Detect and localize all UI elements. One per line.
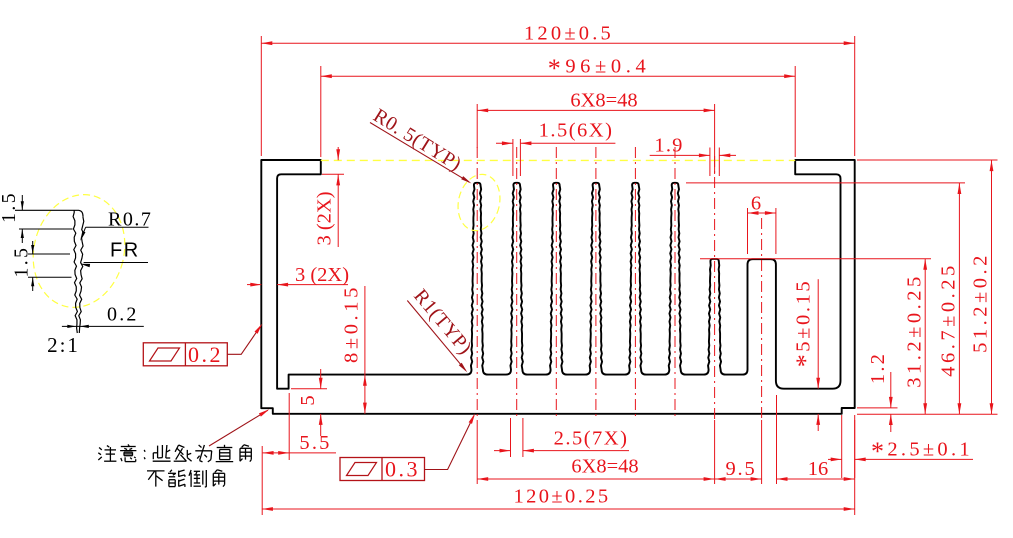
- note leader: [209, 409, 269, 446]
- heatsink profile outline: [261, 160, 854, 414]
- yellow detail circle on 2:1 view: [22, 185, 137, 317]
- svg-text:2.5(7X): 2.5(7X): [554, 428, 629, 450]
- svg-text:6: 6: [751, 193, 761, 215]
- svg-text:120±0.5: 120±0.5: [524, 22, 614, 44]
- dimension *5±0.15: [791, 279, 820, 431]
- label 2:1: [47, 333, 80, 357]
- svg-text:R0. 5(TYP): R0. 5(TYP): [369, 105, 465, 176]
- dimension 31.2±0.25: [700, 259, 931, 415]
- dimension 9.5: [715, 420, 762, 484]
- dimension 120±0.25 bottom: [262, 446, 855, 515]
- svg-text:1.5: 1.5: [12, 246, 33, 278]
- svg-text:5.5: 5.5: [299, 432, 331, 454]
- svg-text:120±0.25: 120±0.25: [513, 485, 610, 507]
- svg-text:R1(TYP): R1(TYP): [409, 285, 476, 359]
- svg-text:8±0.15: 8±0.15: [340, 284, 362, 363]
- detail dimension 0.2: [62, 304, 144, 329]
- detail view fin tip profile: [15, 210, 84, 333]
- dimension 2.5(7X): [494, 418, 629, 457]
- dimension 1.9: [650, 134, 736, 176]
- svg-text:1.5(6X): 1.5(6X): [539, 120, 614, 142]
- flatness frame 0.3: [340, 457, 425, 482]
- svg-text:3 (2X): 3 (2X): [314, 191, 336, 245]
- fin 1 centerline: [476, 147, 478, 420]
- svg-text:5: 5: [297, 395, 319, 405]
- label R0.7: [80, 209, 152, 241]
- svg-text:6X8=48: 6X8=48: [570, 90, 637, 112]
- fin 5 centerline: [634, 147, 636, 420]
- post centerline: [761, 218, 763, 420]
- dimension 5.5: [263, 393, 336, 460]
- svg-text:2:1: 2:1: [47, 333, 80, 357]
- fin 4 centerline: [595, 147, 597, 420]
- dimension 1.5(6X): [496, 120, 615, 177]
- flatness frame 0.2: [143, 342, 227, 367]
- svg-text:6X8=48: 6X8=48: [571, 455, 638, 477]
- yellow detail circle on fin 1 tip: [453, 170, 506, 235]
- svg-text:0.2: 0.2: [188, 342, 223, 367]
- detail dimension 1.5 upper: [0, 191, 24, 243]
- dimension *2.5±0.1: [828, 415, 973, 478]
- svg-text:16: 16: [808, 458, 829, 480]
- fin 2 centerline: [516, 147, 518, 420]
- dimension 6 post width: [748, 193, 776, 255]
- svg-text:46.7±0.25: 46.7±0.25: [938, 262, 960, 377]
- dimension 8±0.15 base: [340, 284, 367, 414]
- note text line 2: [147, 470, 225, 487]
- svg-text:3 (2X): 3 (2X): [295, 264, 349, 286]
- svg-text:*2.5±0.1: *2.5±0.1: [871, 437, 973, 466]
- svg-text:FR: FR: [110, 240, 140, 262]
- note text line 1: [98, 444, 251, 462]
- svg-text:*5±0.15: *5±0.15: [791, 279, 820, 368]
- dimension 3(2X) wall thickness: [247, 264, 349, 287]
- svg-text:0.3: 0.3: [385, 457, 420, 482]
- leader for flatness 0.2: [228, 324, 263, 355]
- fin 7 centerline: [714, 156, 716, 420]
- dimension 1.2: [857, 352, 898, 432]
- dimension 16: [777, 395, 855, 484]
- svg-text:1.9: 1.9: [654, 134, 683, 156]
- svg-text:0.2: 0.2: [107, 304, 139, 326]
- dimension 51.2±0.2: [857, 160, 998, 414]
- fin 6 centerline: [674, 147, 676, 420]
- svg-text:9.5: 9.5: [725, 458, 756, 480]
- detail tick lines: [19, 229, 73, 277]
- dimension 3(2X) lip height: [314, 147, 345, 247]
- svg-text:31.2±0.25: 31.2±0.25: [904, 273, 926, 388]
- dimension 120±0.5 top: [261, 22, 854, 156]
- yellow dashed top face line: [321, 159, 795, 161]
- svg-text:51.2±0.2: 51.2±0.2: [970, 252, 992, 353]
- dimension *96±0.4: [321, 54, 795, 157]
- dimension 6X8=48 top: [477, 90, 714, 174]
- leader R0.5(TYP): [369, 105, 471, 184]
- dimension 46.7±0.25: [686, 183, 965, 414]
- leader for flatness 0.3: [424, 413, 475, 469]
- dimension 5 ledge: [291, 369, 327, 436]
- detail dimension 1.5 lower: [12, 241, 35, 291]
- label FR: [80, 240, 148, 268]
- dimension 6X8=48 bottom: [477, 420, 714, 484]
- svg-text:1.2: 1.2: [867, 352, 889, 384]
- leader R1(TYP): [407, 285, 476, 372]
- fin 3 centerline: [555, 147, 557, 420]
- svg-text:*96±0.4: *96±0.4: [548, 54, 651, 83]
- svg-text:1.5: 1.5: [0, 191, 20, 223]
